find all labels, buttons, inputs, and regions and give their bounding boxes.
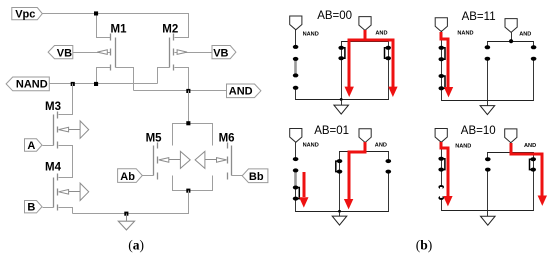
node dots M6 stack [531,45,537,60]
node dots M6 stack [385,46,391,60]
NAND port flag [290,129,302,143]
flag NAND [6,77,49,91]
svg-text:AND: AND [375,31,387,37]
transistor on M5 staple [336,161,340,172]
red arrowhead AND [538,196,547,206]
flag VB right [212,46,236,59]
red current path AND [349,142,365,199]
svg-text:AB=10: AB=10 [461,125,496,137]
wire M1 drain branch [97,14,111,38]
ground [487,211,489,217]
transistor B off gap [294,75,297,87]
wire rail to ground bus [73,191,189,214]
transistor M5 [154,143,158,180]
transistor M1 [111,34,116,71]
node AND junction [186,89,190,93]
transistor on B staple [441,76,445,88]
transistor on M5 staple [341,48,345,58]
wire M2 backgate to NAND line [158,68,170,84]
wire B to M4 gate [43,207,54,209]
transistor M4 [54,174,58,211]
node ground junction [124,212,128,216]
transistor on A staple [441,48,445,59]
flag B [25,201,43,213]
wire AND line [134,90,227,92]
flag Ab [118,169,143,183]
wire M4 source to ground bus [59,208,73,214]
svg-text:AND: AND [519,32,531,38]
AND port flag [505,129,517,143]
red arrowhead NAND [299,197,308,207]
svg-text:NAND: NAND [303,142,319,148]
wire AND stem [365,31,367,42]
AND port flag [359,17,371,31]
transistor M5 off gap [487,159,490,169]
wire AND stem [511,33,513,42]
ground [487,101,489,106]
transistor M5 off gap [486,47,489,58]
node bottom rail junction [186,189,190,193]
wire M3 source to M4 drain [59,146,73,178]
flag Vpc [12,8,43,20]
wire M5/M6 top rail [173,124,213,146]
svg-text:AND: AND [524,143,536,149]
floating node bar NAND mid [294,59,297,76]
transistor on A staple [441,159,445,170]
transistor M6 [228,143,232,180]
svg-text:M6: M6 [219,133,235,145]
svg-text:B: B [27,202,35,214]
wire AND to M5/M6 top rail [188,91,190,124]
wire AND stem [510,143,512,153]
svg-text:AND: AND [375,142,387,148]
node dots NAND stack [439,46,445,91]
red arrowhead left [345,87,354,97]
wire Vpc rail [43,14,189,38]
svg-text:AB=00: AB=00 [317,10,352,22]
node dots M5 stack [485,45,491,60]
ground [126,214,128,222]
node NAND-M3 junction [71,82,75,86]
node top rail junction [186,121,190,125]
AND port flag [359,129,371,143]
wire M2 gate to VB-right [175,52,213,54]
wire NAND line [50,83,158,85]
red arrowhead AND [344,199,353,209]
wire AND stem [365,143,367,152]
floating node bar NAND mid [294,171,297,188]
transistor M3 [54,112,58,149]
transistor A off gap [294,159,297,170]
flag A [25,139,43,151]
ground [339,212,341,217]
node Vpc-M1 junction [94,11,98,15]
transistor M2 [170,34,174,71]
svg-text:Vpc: Vpc [15,9,35,21]
svg-text:Bb: Bb [249,171,264,183]
node NAND-M1 junction [94,82,98,86]
wire A to M3 gate [43,145,54,147]
wire M1 backgate to AND line [116,68,134,91]
flag AND [227,84,261,98]
node dots M5 stack [485,157,491,171]
svg-text:(b): (b) [416,238,433,253]
svg-text:(a): (a) [128,238,144,253]
NAND port flag [435,129,447,143]
wire NAND stack and rails [442,142,534,211]
svg-text:VB: VB [213,47,228,59]
wire M5/M6 bottom rail [173,176,213,191]
wire Ab to M5 gate [143,175,154,177]
node dots M5 stack [337,159,343,174]
svg-text:NAND: NAND [303,31,319,37]
wire VB-left to M1 gate [73,52,111,54]
svg-text:A: A [27,140,35,152]
wire M1 source to NAND [97,68,111,84]
red current path NAND [441,142,448,196]
wire NAND stack and rails [296,143,389,212]
svg-text:M1: M1 [111,23,128,35]
svg-text:NAND: NAND [457,30,473,36]
red arrowhead NAND [443,196,452,206]
transistor B off gap [440,187,443,198]
wire Bb to M6 gate [232,175,243,177]
node ground junction [338,210,341,213]
svg-text:VB: VB [57,47,72,59]
svg-text:NAND: NAND [455,144,471,150]
flag Bb [242,169,268,183]
svg-text:NAND: NAND [16,79,48,91]
node dots M5 stack [338,46,344,60]
node dots NAND stack [293,45,299,90]
svg-text:AB=01: AB=01 [314,125,349,137]
transistor M6 off gap [387,161,390,172]
svg-text:AND: AND [229,86,253,98]
red arrowhead [444,87,453,97]
red current path [364,30,367,40]
svg-text:Ab: Ab [120,171,135,183]
svg-text:M3: M3 [45,101,61,113]
svg-text:AB=11: AB=11 [462,11,496,23]
red current path AND [511,143,542,196]
transistor on B staple [296,188,300,199]
node dots NAND stack [293,157,299,201]
flag VB left [48,46,73,59]
red arrowhead right [388,87,397,97]
node dots NAND stack [438,157,444,200]
wire NAND stack [442,31,534,101]
NAND port flag [290,16,302,30]
wire M3 drain to NAND [59,84,73,115]
wire NAND stack [296,30,389,100]
AND port flag [505,19,517,33]
red current path [441,32,448,87]
svg-text:M4: M4 [45,162,62,174]
node AND stem junction [509,39,513,43]
svg-text:M2: M2 [162,24,178,36]
svg-text:M5: M5 [146,133,163,145]
NAND port flag [435,18,447,32]
node ground junction [340,98,343,101]
transistor M6 off gap [532,47,535,58]
red partial path NAND [303,172,306,197]
transistor on M6 staple [530,159,534,169]
wire M2 source to AND [175,68,189,91]
node dots M6 stack [530,157,536,171]
node dots M6 stack [386,159,392,174]
ground [341,100,343,106]
transistor on M6 staple [385,48,389,58]
transistor A off gap [294,47,297,59]
